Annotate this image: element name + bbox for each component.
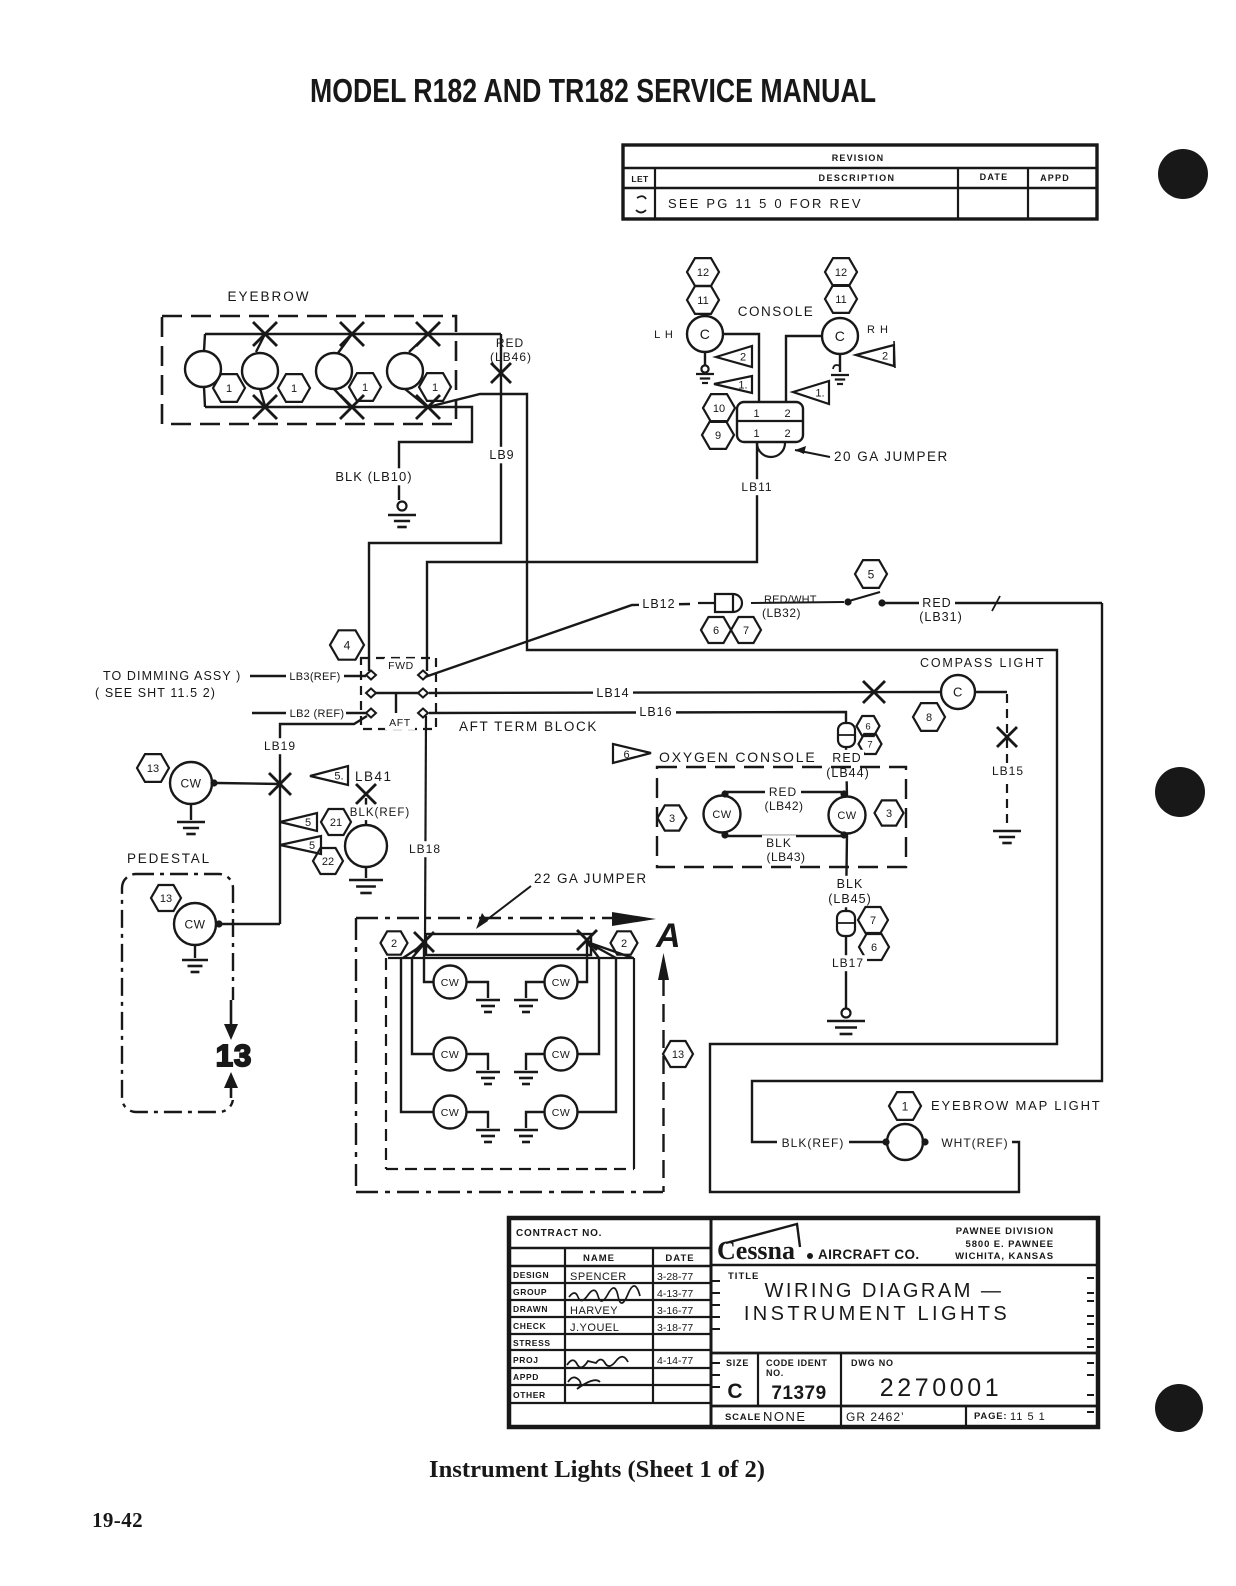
svg-text:8: 8 bbox=[926, 712, 932, 724]
label BLK (LB45) bbox=[832, 876, 868, 893]
console terminal block with pins 1 2 / 1 2 bbox=[737, 402, 803, 442]
svg-text:4-14-77: 4-14-77 bbox=[657, 1355, 693, 1367]
svg-text:DWG NO: DWG NO bbox=[851, 1358, 894, 1368]
svg-text:SCALE: SCALE bbox=[725, 1412, 761, 1423]
svg-text:(LB45): (LB45) bbox=[828, 892, 872, 906]
svg-text:WHT(REF): WHT(REF) bbox=[941, 1136, 1008, 1150]
wire RED LB44 down to oxygen console lamp bbox=[846, 747, 847, 797]
instrument lamp CW left bbox=[170, 762, 212, 804]
revision table frame bbox=[623, 145, 1097, 219]
node hexagon 13 pedestal bbox=[151, 885, 181, 911]
svg-text:LB41: LB41 bbox=[355, 769, 393, 784]
svg-text:11 5 1: 11 5 1 bbox=[1010, 1411, 1046, 1423]
svg-text:DATE: DATE bbox=[665, 1253, 694, 1264]
svg-text:LB16: LB16 bbox=[639, 705, 672, 719]
svg-text:CW: CW bbox=[837, 810, 856, 822]
ground at left CW lamp bbox=[190, 804, 192, 820]
svg-text:DATE: DATE bbox=[980, 172, 1009, 182]
wire BLK LB43 between oxygen lamps bbox=[727, 835, 842, 837]
term block middle row jumper wire bbox=[376, 692, 418, 694]
svg-text:SEE PG 11 5 0 FOR REV: SEE PG 11 5 0 FOR REV bbox=[668, 196, 863, 211]
svg-text:BLK(REF): BLK(REF) bbox=[782, 1136, 845, 1150]
label LB14 bbox=[593, 685, 633, 702]
wire eyebrow top bus bbox=[205, 333, 501, 335]
svg-text:DESCRIPTION: DESCRIPTION bbox=[819, 173, 896, 183]
lamp below LB41 bbox=[345, 825, 387, 867]
svg-text:C: C bbox=[700, 326, 711, 342]
svg-text:1: 1 bbox=[753, 428, 760, 440]
svg-text:CW: CW bbox=[185, 917, 206, 931]
svg-text:RED: RED bbox=[769, 785, 797, 799]
ground floodlight R1 bbox=[526, 982, 545, 998]
label FWD bbox=[384, 658, 418, 673]
wire BLK LB10 from eyebrow bottom bus to ground bbox=[399, 407, 472, 500]
svg-text:Instrument Lights (Sheet 1 of: Instrument Lights (Sheet 1 of 2) bbox=[429, 1457, 765, 1483]
label WHT(REF) bbox=[938, 1135, 1012, 1151]
wire fan from right jumper splice bbox=[587, 942, 599, 958]
svg-text:LB12: LB12 bbox=[642, 597, 675, 611]
svg-text:C: C bbox=[953, 685, 963, 700]
svg-text:3-28-77: 3-28-77 bbox=[657, 1271, 693, 1283]
svg-text:13: 13 bbox=[147, 763, 159, 775]
svg-text:4-13-77: 4-13-77 bbox=[657, 1288, 693, 1300]
label RED (LB42) bbox=[765, 784, 801, 800]
svg-text:CONSOLE: CONSOLE bbox=[738, 304, 815, 319]
svg-text:APPD: APPD bbox=[513, 1372, 539, 1382]
svg-text:1.: 1. bbox=[738, 380, 747, 392]
svg-text:3: 3 bbox=[669, 813, 675, 825]
wire to floodlight lamp L2 bbox=[412, 958, 433, 1054]
svg-text:APPD: APPD bbox=[1040, 173, 1070, 183]
wire from CW lamp to LB19 bbox=[210, 779, 217, 786]
flag triangle 2 at LH lamp bbox=[716, 346, 752, 367]
wire RED LB31 loop down to eyebrow map light BLK(REF) bbox=[752, 603, 1102, 1142]
floodlight lamp CW R3 bbox=[545, 1096, 578, 1129]
svg-text:2: 2 bbox=[621, 938, 627, 950]
splice X on LB14 bbox=[863, 681, 885, 703]
svg-text:7: 7 bbox=[743, 625, 749, 637]
ground floodlight R3 bbox=[526, 1112, 545, 1128]
ground at pedestal lamp bbox=[194, 945, 196, 958]
svg-text:6: 6 bbox=[623, 749, 630, 761]
svg-text:1: 1 bbox=[226, 383, 232, 395]
svg-text:WIRING DIAGRAM —: WIRING DIAGRAM — bbox=[765, 1280, 1004, 1302]
svg-text:AIRCRAFT CO.: AIRCRAFT CO. bbox=[818, 1247, 920, 1262]
eyebrow map light lamp bbox=[887, 1124, 923, 1160]
svg-text:(LB46): (LB46) bbox=[490, 350, 532, 364]
wire fan from left jumper splice bbox=[403, 944, 424, 958]
svg-text:5.: 5. bbox=[334, 771, 343, 783]
20 GA jumper semicircle under console terminal block bbox=[757, 443, 785, 457]
wire LH lamp to console terminal block pin 1 bbox=[723, 334, 759, 403]
eyebrow dashed enclosure box bbox=[162, 316, 456, 424]
label BLK (LB10) bbox=[326, 468, 422, 485]
svg-text:9: 9 bbox=[715, 430, 721, 442]
svg-text:C: C bbox=[835, 328, 846, 344]
floodlight outer dash-dot box bbox=[356, 917, 616, 919]
scale row bbox=[711, 1405, 1098, 1408]
svg-text:EYEBROW MAP LIGHT: EYEBROW MAP LIGHT bbox=[931, 1098, 1102, 1113]
wire to floodlight lamp R1 bbox=[578, 942, 587, 982]
svg-text:DRAWN: DRAWN bbox=[513, 1304, 548, 1314]
ground at LH console lamp bbox=[704, 352, 706, 366]
floodlight lamp CW L2 bbox=[434, 1038, 467, 1071]
floodlight lamp CW L1 bbox=[434, 966, 467, 999]
svg-text:R H: R H bbox=[867, 324, 889, 336]
svg-text:22 GA JUMPER: 22 GA JUMPER bbox=[534, 871, 648, 886]
oxygen console lamp CW right bbox=[829, 797, 866, 834]
wire LB3(REF) into FWD pin 1 bbox=[250, 675, 286, 677]
oxygen console dashed box bbox=[657, 767, 906, 867]
svg-text:7: 7 bbox=[867, 739, 872, 750]
svg-text:1.: 1. bbox=[815, 388, 824, 400]
svg-text:LB2 (REF): LB2 (REF) bbox=[290, 708, 345, 720]
label BLK (LB43) bbox=[762, 835, 796, 851]
node hexagon 22 bbox=[313, 848, 343, 874]
svg-text:CODE IDENT: CODE IDENT bbox=[766, 1358, 828, 1368]
section arrow up (right of floodlight box) bbox=[658, 953, 669, 980]
wire from compass lamp to LB15 dashed drop bbox=[975, 691, 1007, 693]
node hexagon 7 at LB44 connector bbox=[859, 734, 882, 754]
svg-text:STRESS: STRESS bbox=[513, 1338, 551, 1348]
wire to floodlight lamp R2 bbox=[578, 958, 599, 1054]
tick mark on LB31 wire bbox=[992, 596, 1000, 611]
size / code ident / dwg no row bbox=[711, 1352, 1098, 1355]
connector between LB16 and RED LB44 bbox=[838, 723, 855, 747]
binder hole punch dot bottom right bbox=[1155, 1384, 1203, 1432]
svg-text:2: 2 bbox=[784, 408, 791, 420]
svg-text:13: 13 bbox=[216, 1038, 252, 1073]
svg-text:LB9: LB9 bbox=[489, 448, 514, 462]
ground LB15 bbox=[993, 830, 1021, 833]
svg-text:TITLE: TITLE bbox=[728, 1271, 759, 1282]
node hexagon 13 on floodlight box right edge bbox=[663, 1041, 693, 1067]
svg-text:2270001: 2270001 bbox=[880, 1374, 1003, 1402]
svg-text:GR 2462’: GR 2462’ bbox=[846, 1410, 905, 1424]
wire LB41 down to lamp bbox=[365, 798, 367, 825]
svg-text:LB17: LB17 bbox=[832, 956, 864, 970]
svg-text:RED/WHT: RED/WHT bbox=[764, 594, 817, 606]
connector on LB45/LB17 bbox=[837, 911, 855, 936]
svg-text:( SEE SHT 11.5 2): ( SEE SHT 11.5 2) bbox=[95, 686, 216, 700]
node hexagon 4 at term block bbox=[330, 630, 364, 659]
svg-text:21: 21 bbox=[330, 817, 342, 829]
svg-text:NONE: NONE bbox=[763, 1409, 807, 1424]
svg-text:CW: CW bbox=[552, 1049, 571, 1061]
svg-text:REVISION: REVISION bbox=[832, 153, 885, 163]
splice X marks on eyebrow bottom bus bbox=[260, 389, 265, 406]
floodlight lamp CW R1 bbox=[545, 966, 578, 999]
splice X marks on eyebrow top bus bbox=[256, 334, 265, 352]
svg-text:J.YOUEL: J.YOUEL bbox=[570, 1322, 619, 1334]
label LB12 bbox=[639, 596, 679, 613]
svg-text:CW: CW bbox=[441, 1049, 460, 1061]
node hexagon 6 at LB44 connector bbox=[857, 716, 880, 736]
node hexagon 5 above switch bbox=[855, 560, 887, 588]
node hexagon 8 bbox=[913, 703, 945, 731]
svg-text:LB19: LB19 bbox=[264, 739, 296, 753]
svg-text:71379: 71379 bbox=[771, 1383, 826, 1404]
svg-text:3: 3 bbox=[886, 808, 892, 820]
svg-text:5: 5 bbox=[868, 567, 875, 581]
label LB15 bbox=[991, 763, 1025, 779]
label BLK(REF) at LB41 lamp bbox=[345, 805, 415, 821]
svg-text:4: 4 bbox=[344, 638, 351, 652]
wire RED LB31 to right loop bbox=[882, 602, 1102, 604]
ground below LB41 lamp bbox=[365, 867, 367, 878]
splice X right on jumper bus bbox=[577, 930, 597, 950]
floodlight inner box (solid top/right, dashed left/bottom) bbox=[388, 957, 634, 959]
ground LB10 bbox=[398, 502, 407, 511]
svg-text:13: 13 bbox=[160, 893, 172, 905]
node hexagon 10 at console terminal block bbox=[703, 394, 735, 422]
svg-text:10: 10 bbox=[713, 403, 725, 415]
label LB16 bbox=[636, 704, 676, 721]
svg-text:GROUP: GROUP bbox=[513, 1287, 547, 1297]
splice X on LB19 bbox=[269, 773, 291, 795]
oxygen console lamp CW left bbox=[704, 796, 741, 833]
svg-text:11: 11 bbox=[697, 295, 708, 307]
ground floodlight L3 bbox=[466, 1112, 488, 1128]
svg-text:WICHITA, KANSAS: WICHITA, KANSAS bbox=[955, 1251, 1054, 1262]
label LB18 on wire from AFT term block to floodlight box bbox=[425, 716, 426, 941]
svg-text:6: 6 bbox=[871, 942, 877, 954]
svg-text:LB14: LB14 bbox=[596, 686, 629, 700]
svg-text:(LB43): (LB43) bbox=[766, 850, 805, 864]
svg-text:SPENCER: SPENCER bbox=[570, 1271, 627, 1283]
ground floodlight R2 bbox=[526, 1054, 545, 1070]
svg-text:CW: CW bbox=[441, 977, 460, 989]
svg-text:SIZE: SIZE bbox=[726, 1358, 749, 1368]
svg-text:A: A bbox=[655, 917, 681, 955]
svg-text:LET: LET bbox=[631, 174, 649, 184]
switch in RED LB31 line bbox=[751, 602, 844, 603]
wire RED LB42 between oxygen lamps bbox=[727, 791, 842, 793]
svg-text:AFT: AFT bbox=[389, 717, 411, 729]
svg-text:(LB42): (LB42) bbox=[764, 799, 803, 813]
svg-text:2: 2 bbox=[740, 352, 746, 364]
svg-text:(LB31): (LB31) bbox=[919, 610, 963, 624]
svg-text:MODEL R182 AND TR182 SERVICE M: MODEL R182 AND TR182 SERVICE MANUAL bbox=[310, 72, 876, 109]
ground floodlight L2 bbox=[466, 1054, 488, 1070]
node hexagon 3 right bbox=[875, 800, 904, 825]
title block left column grid bbox=[710, 1218, 713, 1427]
svg-text:TO DIMMING ASSY ): TO DIMMING ASSY ) bbox=[103, 669, 241, 683]
svg-text:(LB32): (LB32) bbox=[762, 606, 801, 620]
node hexagon 2 left bbox=[381, 931, 408, 954]
node hexagon 13 left bbox=[137, 754, 169, 782]
title block zone tick marks bbox=[712, 1280, 720, 1282]
label LB11 bbox=[740, 479, 774, 495]
wire eyebrow bottom bus bbox=[205, 406, 428, 408]
title block outer frame bbox=[509, 1218, 1098, 1427]
svg-text:5: 5 bbox=[309, 840, 315, 852]
svg-text:11: 11 bbox=[835, 294, 846, 306]
svg-text:CHECK: CHECK bbox=[513, 1321, 546, 1331]
wire LB14 to compass light bbox=[429, 692, 941, 693]
svg-text:2: 2 bbox=[391, 938, 397, 950]
svg-text:CONTRACT NO.: CONTRACT NO. bbox=[516, 1228, 602, 1239]
svg-text:1: 1 bbox=[753, 408, 760, 420]
eyebrow lamp 1 bbox=[204, 334, 205, 351]
console lamp C left (LH) bbox=[687, 316, 723, 352]
node hexagon 21 bbox=[321, 809, 351, 835]
svg-text:INSTRUMENT LIGHTS: INSTRUMENT LIGHTS bbox=[744, 1303, 1010, 1325]
svg-text:RED: RED bbox=[832, 751, 861, 765]
FWD AFT terminal block dashed outline bbox=[361, 658, 436, 729]
svg-text:13: 13 bbox=[672, 1049, 684, 1061]
svg-text:3-18-77: 3-18-77 bbox=[657, 1322, 693, 1334]
floodlight jumper bus bar bbox=[426, 934, 591, 955]
svg-text:PROJ: PROJ bbox=[513, 1355, 539, 1365]
svg-text:BLK: BLK bbox=[766, 836, 792, 850]
label RED (LB44) bbox=[830, 750, 864, 767]
svg-text:6: 6 bbox=[713, 625, 719, 637]
svg-text:CW: CW bbox=[441, 1107, 460, 1119]
section arrow A (top right of floodlight box) bbox=[612, 912, 656, 926]
svg-text:6: 6 bbox=[865, 721, 870, 732]
node hexagon 7 at LB17 bbox=[858, 907, 888, 933]
svg-text:L H: L H bbox=[654, 329, 674, 341]
wire to floodlight lamp L1 bbox=[424, 958, 433, 982]
ground LB17 bbox=[842, 1009, 851, 1018]
wire from eyebrow bottom bus to compass-light loop (long right loop) bbox=[428, 394, 1057, 1192]
node hexagon 11 (RH console) bbox=[825, 285, 857, 313]
svg-text:NO.: NO. bbox=[766, 1368, 784, 1378]
svg-text:7: 7 bbox=[870, 915, 876, 927]
svg-text:5800 E. PAWNEE: 5800 E. PAWNEE bbox=[966, 1239, 1054, 1250]
pedestal dash-dot box bbox=[122, 874, 233, 1112]
node hexagon 6 at LB32 bbox=[701, 617, 731, 643]
svg-text:DESIGN: DESIGN bbox=[513, 1270, 549, 1280]
flag triangle 5 upper bbox=[280, 813, 317, 831]
term block pins bbox=[366, 671, 376, 680]
svg-text:OTHER: OTHER bbox=[513, 1390, 546, 1400]
flag triangle 1 at LH lamp bbox=[714, 376, 752, 393]
svg-text:CW: CW bbox=[552, 1107, 571, 1119]
svg-text:EYEBROW: EYEBROW bbox=[227, 289, 310, 304]
wire LB2(REF) into AFT pin bbox=[252, 712, 286, 714]
svg-text:2: 2 bbox=[882, 351, 888, 363]
flag triangle 1 at RH lamp bbox=[793, 381, 829, 404]
svg-text:2: 2 bbox=[784, 428, 791, 440]
svg-text:LB3(REF): LB3(REF) bbox=[289, 671, 340, 683]
svg-text:22: 22 bbox=[322, 856, 334, 868]
splice X left on jumper bus bbox=[414, 932, 434, 952]
flag triangle 5 lower bbox=[280, 836, 321, 854]
eyebrow lamp 3 bbox=[316, 353, 352, 389]
splice X on RED LB46 wire bbox=[491, 363, 511, 383]
floodlight lamp CW L3 bbox=[434, 1096, 467, 1129]
eyebrow lamp 2 bbox=[242, 353, 278, 389]
node hexagon 11 (LH console) bbox=[687, 286, 719, 314]
svg-text:LB18: LB18 bbox=[409, 842, 441, 856]
svg-text:12: 12 bbox=[697, 267, 709, 279]
wire RH lamp to console terminal block pin 2 bbox=[786, 336, 822, 403]
wire LB17 down to ground bbox=[845, 936, 847, 1008]
svg-text:HARVEY: HARVEY bbox=[570, 1305, 618, 1317]
node hexagon 7 at LB32 bbox=[731, 617, 761, 643]
connector capsule on LB12/LB32 bbox=[698, 594, 742, 612]
wire LB19 from AFT term block down to pedestal lamp bbox=[280, 716, 367, 924]
svg-text:PEDESTAL: PEDESTAL bbox=[127, 851, 211, 866]
svg-text:BLK(REF): BLK(REF) bbox=[350, 807, 410, 819]
wire pedestal lamp to LB19 bbox=[215, 920, 222, 927]
svg-text:NAME: NAME bbox=[583, 1253, 615, 1264]
svg-text:1: 1 bbox=[362, 382, 368, 394]
wire to floodlight lamp R3 bbox=[578, 958, 616, 1112]
node hexagon 6 at LB17 bbox=[859, 934, 889, 960]
svg-text:C: C bbox=[727, 1380, 742, 1403]
console lamp C right (RH) bbox=[822, 318, 858, 354]
flag triangle 5 with LB41 bbox=[310, 766, 348, 785]
wire LB9 / RED LB46 from eyebrow top bus down to FWD term block bbox=[369, 334, 501, 671]
ground floodlight L1 bbox=[466, 982, 488, 998]
label AFT bbox=[385, 715, 415, 730]
ground at RH console lamp bbox=[839, 354, 841, 372]
flag triangle 2 at RH lamp bbox=[856, 345, 894, 366]
label LB17 bbox=[829, 955, 867, 971]
svg-text:RED: RED bbox=[922, 596, 951, 610]
wire to floodlight lamp L3 bbox=[401, 958, 433, 1112]
node hexagon 9 at console terminal block bbox=[702, 421, 734, 449]
node hexagon 1 lamps (x4) bbox=[213, 374, 245, 402]
label LB19 bbox=[261, 738, 299, 754]
eyebrow lamp 4 bbox=[387, 353, 423, 389]
svg-text:PAGE:: PAGE: bbox=[974, 1411, 1007, 1422]
svg-text:5: 5 bbox=[305, 817, 311, 829]
svg-text:FWD: FWD bbox=[388, 660, 414, 672]
svg-text:PAWNEE DIVISION: PAWNEE DIVISION bbox=[956, 1226, 1054, 1237]
svg-text:1: 1 bbox=[432, 382, 438, 394]
svg-text:1: 1 bbox=[902, 1099, 909, 1113]
node hexagon 3 left bbox=[658, 805, 687, 830]
wire LB12 diagonal from FWD term block bbox=[425, 604, 690, 677]
revision row LET symbol bbox=[636, 196, 646, 212]
pedestal lamp CW bbox=[174, 903, 216, 945]
label BLK(REF) bbox=[777, 1135, 849, 1151]
wire BLK LB45 from right oxygen lamp down bbox=[846, 833, 847, 910]
compass light lamp C bbox=[941, 675, 975, 709]
svg-text:BLK: BLK bbox=[837, 877, 864, 891]
node hexagon 1 eyebrow map light bbox=[889, 1092, 921, 1120]
node hexagon 12 (LH console) bbox=[687, 258, 719, 286]
svg-text:LB11: LB11 bbox=[741, 480, 772, 494]
svg-text:1: 1 bbox=[291, 383, 297, 395]
svg-text:3-16-77: 3-16-77 bbox=[657, 1305, 693, 1317]
svg-text:CW: CW bbox=[712, 809, 731, 821]
splice X on LB41 wire bbox=[356, 784, 376, 804]
flag triangle 6 oxygen console bbox=[613, 744, 651, 763]
binder hole punch dot middle right bbox=[1155, 767, 1205, 817]
svg-text:12: 12 bbox=[835, 267, 847, 279]
binder hole punch dot top right bbox=[1158, 149, 1208, 199]
Cessna logo and company name bbox=[711, 1264, 1098, 1267]
wire LB16 from AFT term block to oxygen console connector bbox=[429, 712, 846, 722]
svg-text:19-42: 19-42 bbox=[92, 1508, 143, 1532]
svg-text:BLK (LB10): BLK (LB10) bbox=[335, 469, 412, 484]
svg-text:Cessna: Cessna bbox=[717, 1236, 795, 1265]
wire LB11 from console terminal block down and left to FWD term block bbox=[427, 443, 757, 671]
node hexagon 2 right bbox=[611, 931, 638, 954]
splice X on LB15 bbox=[997, 727, 1017, 747]
label LB9 bbox=[486, 447, 518, 464]
floodlight lamp CW R2 bbox=[545, 1038, 578, 1071]
node hexagon 12 (RH console) bbox=[825, 258, 857, 286]
svg-text:LB15: LB15 bbox=[992, 764, 1024, 778]
svg-text:CW: CW bbox=[181, 776, 202, 790]
svg-text:20 GA JUMPER: 20 GA JUMPER bbox=[834, 449, 949, 464]
